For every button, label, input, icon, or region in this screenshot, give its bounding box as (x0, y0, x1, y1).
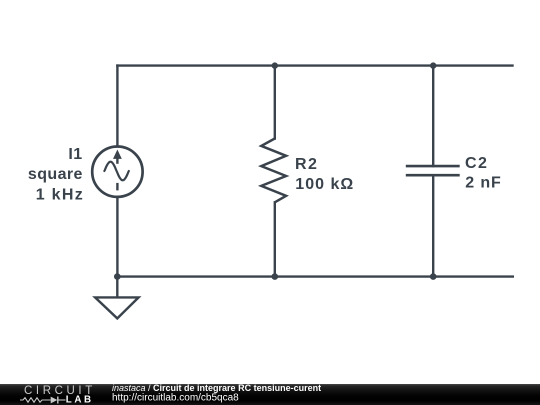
svg-text:LAB: LAB (66, 395, 94, 405)
svg-text:R2: R2 (295, 156, 318, 173)
label I1 (28, 146, 84, 204)
label C2 2 nF (465, 155, 502, 192)
svg-text:2 nF: 2 nF (465, 175, 502, 192)
resistor R2 (261, 139, 286, 203)
wire left vertical lower (116, 197, 118, 277)
node bottom-resistor (272, 273, 279, 280)
svg-text:100 kΩ: 100 kΩ (295, 176, 354, 193)
footer bar (0, 384, 540, 405)
svg-text:square: square (28, 166, 83, 183)
node top-resistor (272, 62, 278, 68)
svg-text:C2: C2 (465, 155, 488, 172)
current source I1 (92, 147, 142, 197)
wire resistor bottom (274, 202, 276, 276)
svg-text:http://circuitlab.com/cb5qca8: http://circuitlab.com/cb5qca8 (112, 393, 239, 404)
svg-text:1 kHz: 1 kHz (36, 186, 84, 203)
svg-text:inastaca / Circuit de integrar: inastaca / Circuit de integrare RC tensi… (112, 383, 321, 393)
svg-text:I1: I1 (68, 146, 82, 163)
wire capacitor top (432, 66, 434, 167)
wire top horizontal (117, 64, 512, 66)
wire bottom horizontal (117, 275, 513, 277)
node bottom-ground (114, 273, 121, 280)
label R2 100 kOhm (295, 156, 354, 193)
ground (95, 277, 139, 319)
wire left vertical upper (116, 66, 118, 147)
node bottom-capacitor (430, 273, 437, 280)
capacitor C2 (406, 166, 460, 175)
wire resistor top (274, 66, 276, 139)
node top-capacitor (430, 62, 436, 68)
CircuitLab logo resistor-diode glyph (20, 397, 66, 404)
wire capacitor bottom (432, 175, 434, 276)
